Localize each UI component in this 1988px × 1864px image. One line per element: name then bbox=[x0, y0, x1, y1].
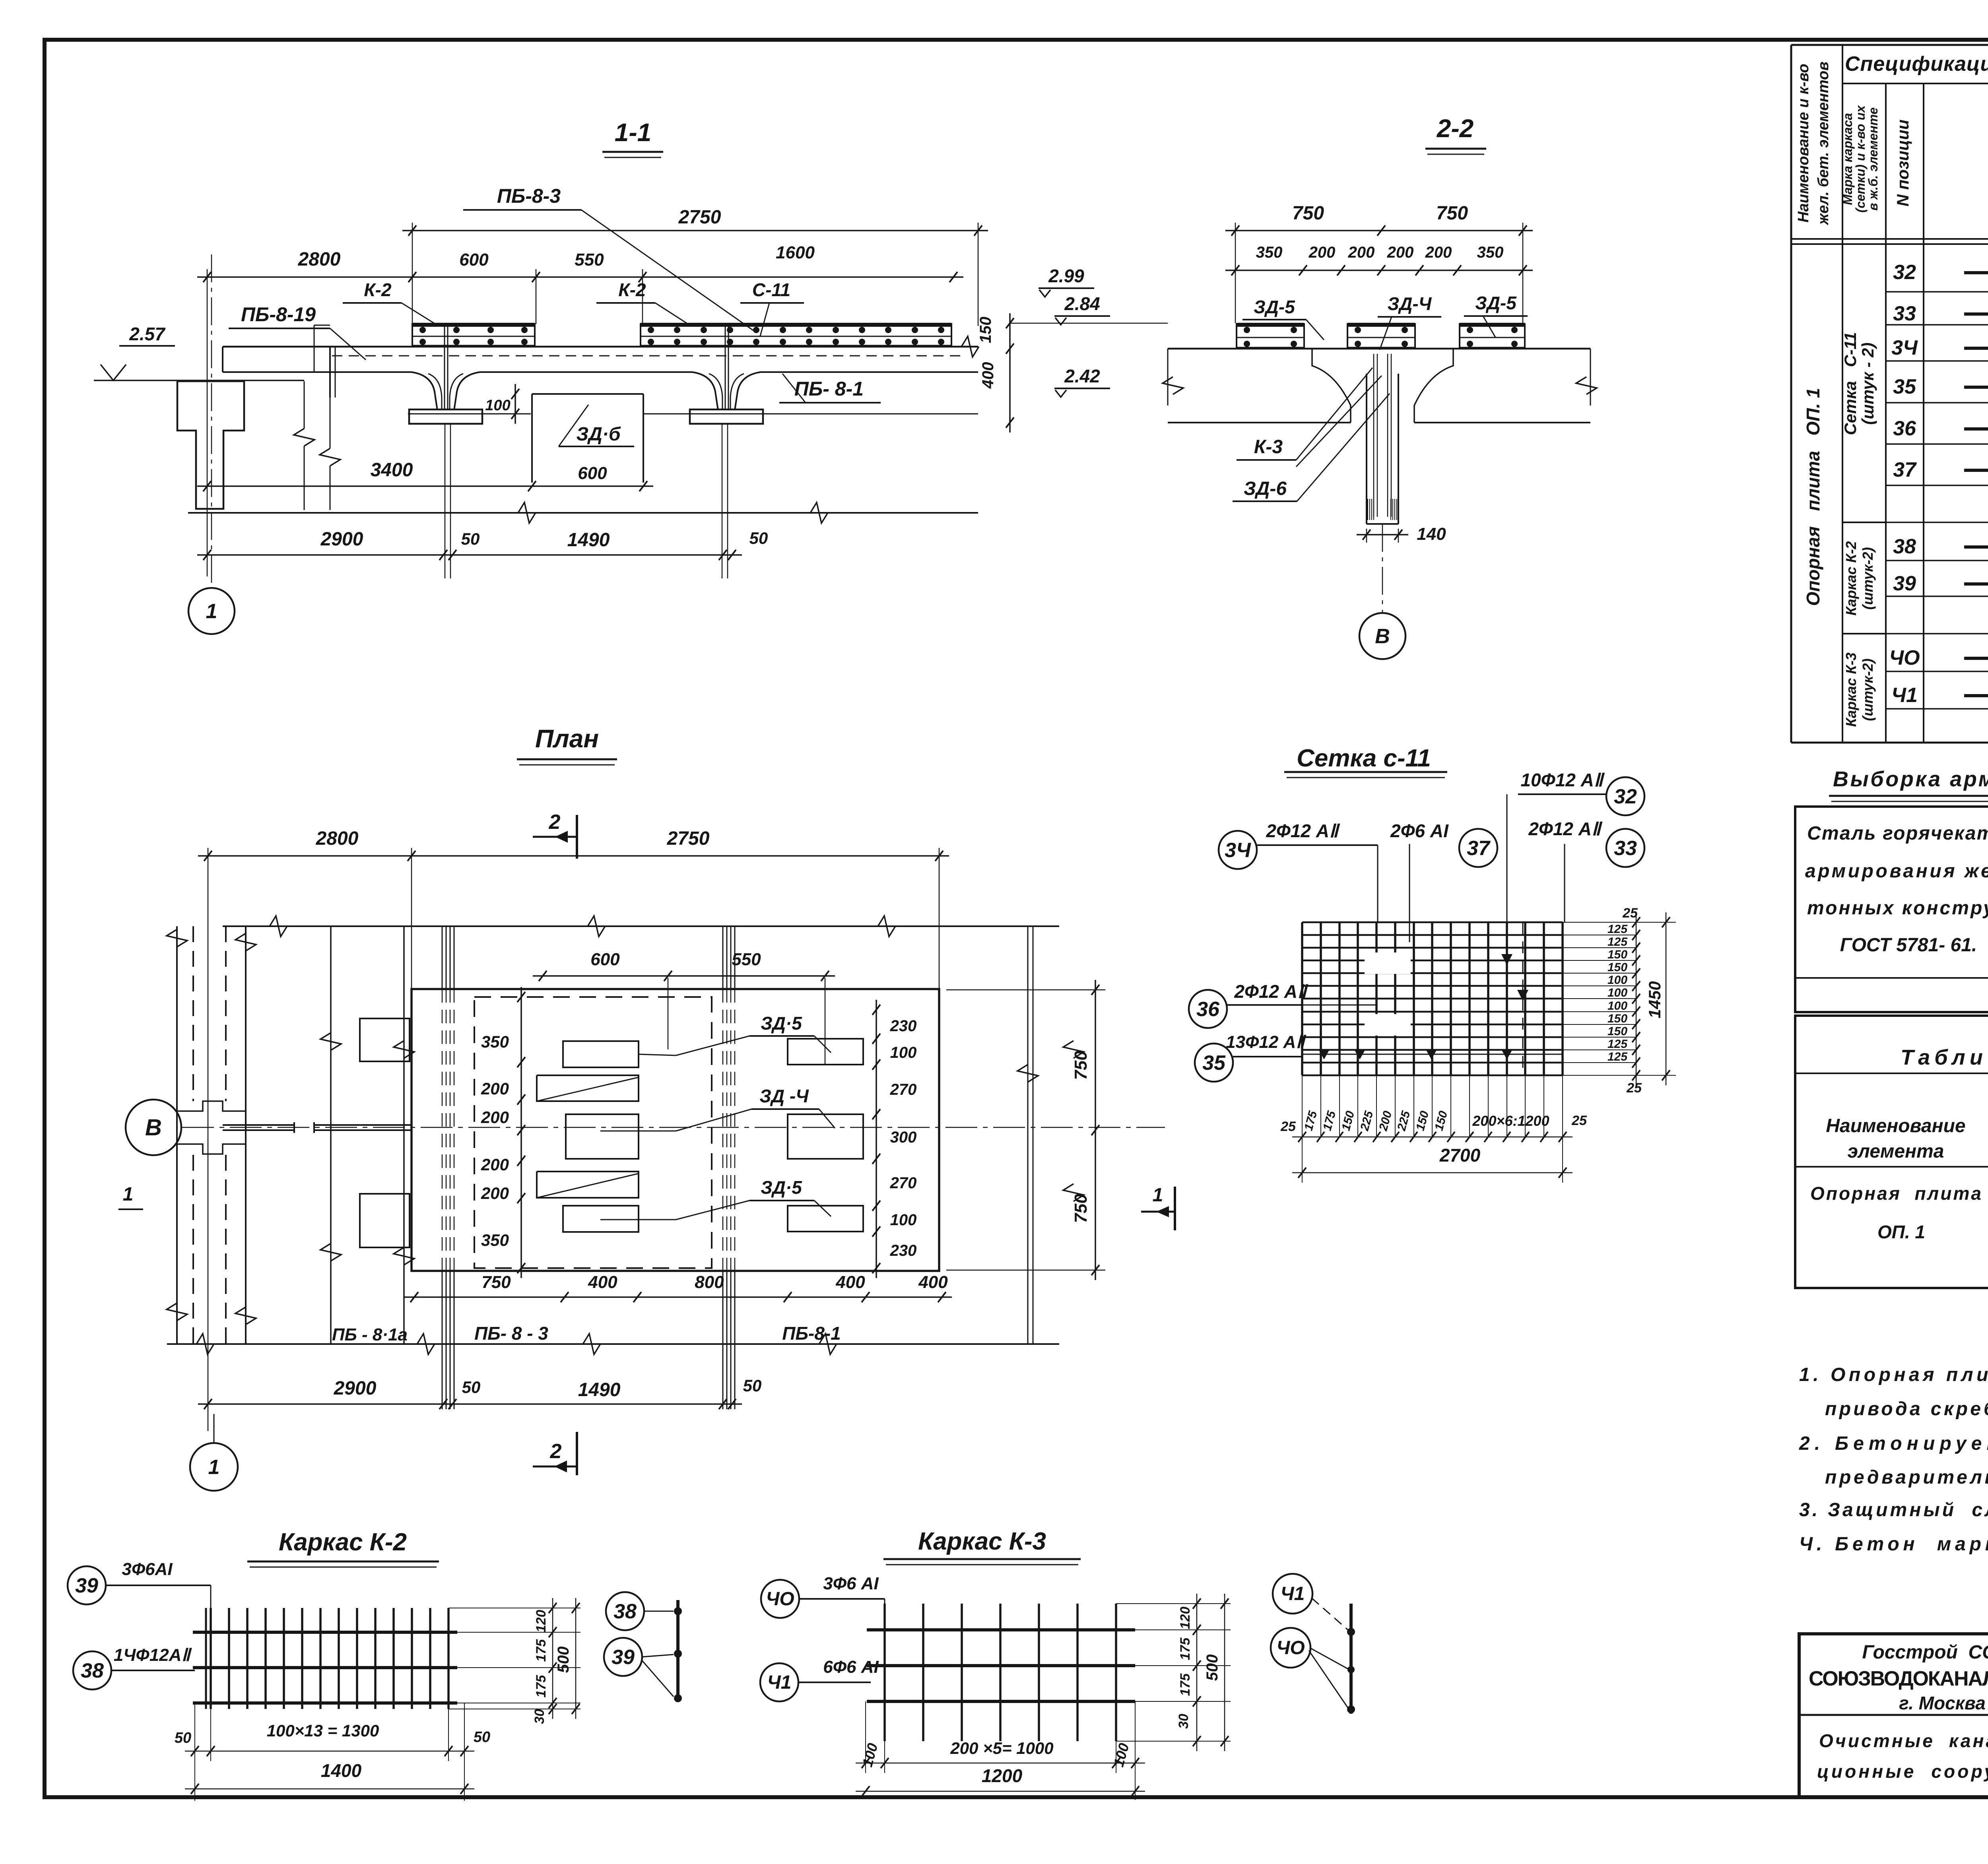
svg-text:400: 400 bbox=[835, 1272, 865, 1292]
svg-text:350: 350 bbox=[481, 1231, 509, 1249]
svg-text:750: 750 bbox=[1071, 1194, 1091, 1223]
svg-text:50: 50 bbox=[743, 1376, 762, 1395]
svg-text:2750: 2750 bbox=[678, 207, 721, 228]
svg-text:К-3: К-3 bbox=[1254, 436, 1283, 458]
svg-text:Сетка с-11: Сетка с-11 bbox=[1297, 745, 1431, 772]
svg-text:500: 500 bbox=[1204, 1655, 1221, 1681]
svg-text:1450: 1450 bbox=[1645, 981, 1664, 1018]
svg-text:270: 270 bbox=[890, 1081, 917, 1098]
svg-text:10Ф12 AⅡ: 10Ф12 AⅡ bbox=[1521, 770, 1605, 790]
svg-text:тонных конструкций: тонных конструкций bbox=[1807, 898, 1988, 919]
svg-text:Каркас К-2: Каркас К-2 bbox=[279, 1528, 407, 1556]
svg-text:3Ф6AI: 3Ф6AI bbox=[122, 1559, 173, 1579]
svg-text:140: 140 bbox=[1417, 524, 1446, 544]
svg-text:(сетки) и к-во их: (сетки) и к-во их bbox=[1853, 105, 1868, 213]
svg-text:3Ч: 3Ч bbox=[1891, 336, 1918, 359]
svg-text:В: В bbox=[145, 1115, 162, 1141]
svg-text:1: 1 bbox=[206, 600, 217, 623]
svg-text:150: 150 bbox=[1607, 1025, 1627, 1038]
svg-text:в ж.б. элементе: в ж.б. элементе bbox=[1866, 107, 1880, 211]
svg-text:125: 125 bbox=[1607, 1038, 1628, 1051]
svg-text:Марка каркаса: Марка каркаса bbox=[1840, 113, 1855, 205]
svg-text:35: 35 bbox=[1893, 375, 1916, 398]
svg-text:ЗД-5: ЗД-5 bbox=[1475, 293, 1517, 313]
svg-text:175: 175 bbox=[534, 1675, 549, 1698]
svg-text:200 ×5= 1000: 200 ×5= 1000 bbox=[950, 1739, 1053, 1757]
svg-text:200×6:1200: 200×6:1200 bbox=[1472, 1113, 1549, 1129]
svg-text:армирования железобе-: армирования железобе- bbox=[1805, 861, 1988, 882]
svg-text:Ч. Бетон марки 200 (обычный): Ч. Бетон марки 200 (обычный) bbox=[1799, 1534, 1988, 1555]
svg-text:ПБ- 8-1: ПБ- 8-1 bbox=[794, 378, 864, 400]
svg-text:привода скребкового механизма: привода скребкового механизма нефтеловуш… bbox=[1825, 1398, 1988, 1420]
svg-text:(штук-2): (штук-2) bbox=[1860, 658, 1876, 721]
svg-text:400: 400 bbox=[918, 1272, 948, 1292]
svg-text:Выборка арматуры на 1 железобе: Выборка арматуры на 1 железобетонный эле… bbox=[1833, 767, 1988, 791]
svg-text:600: 600 bbox=[578, 464, 607, 483]
svg-text:100: 100 bbox=[890, 1044, 917, 1061]
svg-text:200: 200 bbox=[1309, 244, 1336, 261]
svg-text:38: 38 bbox=[1893, 535, 1916, 558]
svg-text:2: 2 bbox=[550, 1440, 562, 1463]
svg-text:30: 30 bbox=[1176, 1714, 1191, 1729]
svg-text:150: 150 bbox=[1607, 948, 1627, 961]
svg-text:1490: 1490 bbox=[567, 530, 610, 551]
svg-text:2Ф12 AⅡ: 2Ф12 AⅡ bbox=[1528, 819, 1603, 839]
svg-text:2700: 2700 bbox=[1439, 1145, 1481, 1166]
svg-text:2750: 2750 bbox=[667, 828, 710, 849]
svg-text:1: 1 bbox=[123, 1184, 134, 1205]
svg-text:750: 750 bbox=[1071, 1051, 1091, 1080]
svg-text:175: 175 bbox=[1178, 1673, 1193, 1696]
svg-text:50: 50 bbox=[175, 1730, 191, 1746]
svg-text:33: 33 bbox=[1893, 302, 1916, 325]
svg-text:Сталь горячекатаная для: Сталь горячекатаная для bbox=[1807, 823, 1988, 844]
svg-text:2.99: 2.99 bbox=[1048, 266, 1084, 286]
svg-text:100×13 = 1300: 100×13 = 1300 bbox=[267, 1721, 379, 1740]
svg-text:750: 750 bbox=[1436, 203, 1468, 224]
svg-text:350: 350 bbox=[1256, 244, 1283, 261]
svg-text:600: 600 bbox=[590, 950, 620, 969]
svg-text:230: 230 bbox=[890, 1017, 917, 1035]
svg-text:100: 100 bbox=[890, 1211, 917, 1229]
svg-text:2800: 2800 bbox=[316, 828, 359, 849]
svg-text:2900: 2900 bbox=[334, 1378, 377, 1399]
svg-text:2Ф12 AⅡ: 2Ф12 AⅡ bbox=[1266, 820, 1340, 841]
svg-text:125: 125 bbox=[1607, 1050, 1628, 1063]
svg-text:(штук-2): (штук-2) bbox=[1860, 547, 1876, 609]
svg-text:(штук - 2): (штук - 2) bbox=[1858, 343, 1877, 425]
svg-text:125: 125 bbox=[1607, 923, 1628, 936]
svg-text:Наименование и к-во: Наименование и к-во bbox=[1795, 64, 1812, 223]
svg-text:1: 1 bbox=[1153, 1185, 1163, 1206]
svg-text:ЗД-Ч: ЗД-Ч bbox=[1388, 293, 1432, 314]
svg-text:350: 350 bbox=[1477, 244, 1504, 261]
svg-text:200: 200 bbox=[1425, 244, 1452, 261]
svg-text:ЗД·5: ЗД·5 bbox=[761, 1177, 802, 1198]
svg-text:В: В bbox=[1375, 625, 1390, 648]
svg-text:3. Защитный слой бетона для: 3. Защитный слой бетона для арматуры при… bbox=[1799, 1499, 1988, 1521]
svg-text:1-1: 1-1 bbox=[615, 118, 652, 147]
svg-text:230: 230 bbox=[890, 1242, 917, 1259]
svg-text:175: 175 bbox=[1178, 1637, 1193, 1660]
svg-text:г. Москва: г. Москва bbox=[1899, 1693, 1986, 1713]
svg-text:ЧO: ЧO bbox=[766, 1589, 794, 1610]
svg-text:400: 400 bbox=[588, 1272, 617, 1292]
svg-text:ЗД -Ч: ЗД -Ч bbox=[759, 1086, 809, 1106]
svg-text:3Ч: 3Ч bbox=[1225, 839, 1251, 862]
svg-text:200: 200 bbox=[481, 1184, 509, 1203]
svg-text:200: 200 bbox=[1348, 244, 1375, 261]
svg-text:350: 350 bbox=[481, 1032, 509, 1051]
svg-text:800: 800 bbox=[695, 1272, 724, 1292]
svg-text:120: 120 bbox=[1178, 1607, 1193, 1629]
svg-text:1ЧФ12AⅡ: 1ЧФ12AⅡ bbox=[114, 1645, 192, 1665]
svg-text:Каркас К-3: Каркас К-3 bbox=[1843, 652, 1859, 727]
svg-text:25: 25 bbox=[1571, 1113, 1587, 1128]
svg-text:500: 500 bbox=[555, 1647, 572, 1673]
svg-text:32: 32 bbox=[1614, 785, 1637, 808]
svg-text:N позиции: N позиции bbox=[1893, 120, 1912, 207]
svg-text:3Ф6 AI: 3Ф6 AI bbox=[823, 1574, 879, 1593]
svg-text:2800: 2800 bbox=[298, 249, 341, 270]
svg-text:Госстрой СССР: Госстрой СССР bbox=[1862, 1642, 1988, 1663]
svg-text:1400: 1400 bbox=[321, 1760, 362, 1781]
svg-text:ПБ-8-1: ПБ-8-1 bbox=[782, 1323, 841, 1344]
svg-text:ЗД·б: ЗД·б bbox=[576, 424, 621, 445]
svg-text:План: План bbox=[535, 724, 599, 753]
svg-text:2.84: 2.84 bbox=[1064, 293, 1100, 314]
svg-text:К-2: К-2 bbox=[618, 279, 646, 300]
svg-text:270: 270 bbox=[890, 1174, 917, 1192]
svg-text:жел. бет. элементов: жел. бет. элементов bbox=[1815, 62, 1832, 225]
svg-text:Ч1: Ч1 bbox=[1891, 684, 1918, 707]
svg-text:С-11: С-11 bbox=[752, 279, 790, 300]
svg-text:750: 750 bbox=[1292, 203, 1324, 224]
svg-text:150: 150 bbox=[977, 317, 994, 343]
svg-text:600: 600 bbox=[459, 250, 489, 270]
svg-text:36: 36 bbox=[1196, 998, 1220, 1021]
svg-text:ЗД-6: ЗД-6 bbox=[1244, 478, 1287, 499]
svg-text:50: 50 bbox=[474, 1729, 490, 1746]
svg-text:13Ф12 AⅡ: 13Ф12 AⅡ bbox=[1226, 1032, 1307, 1052]
svg-text:Каркас К-2: Каркас К-2 bbox=[1843, 541, 1859, 615]
svg-text:25: 25 bbox=[1280, 1119, 1296, 1134]
svg-text:33: 33 bbox=[1614, 837, 1637, 860]
svg-text:Каркас К-3: Каркас К-3 bbox=[918, 1528, 1046, 1555]
svg-text:200: 200 bbox=[481, 1079, 509, 1098]
svg-text:Сетка С-11: Сетка С-11 bbox=[1841, 332, 1860, 435]
svg-text:ЗД-5: ЗД-5 bbox=[1254, 297, 1295, 317]
svg-text:100: 100 bbox=[485, 397, 510, 414]
svg-text:37: 37 bbox=[1893, 458, 1917, 481]
svg-text:ОП. 1: ОП. 1 bbox=[1877, 1222, 1925, 1242]
svg-text:ПБ- 8 - 3: ПБ- 8 - 3 bbox=[474, 1323, 548, 1344]
svg-text:150: 150 bbox=[1607, 1012, 1627, 1025]
svg-text:Ч1: Ч1 bbox=[1281, 1583, 1305, 1604]
svg-text:25: 25 bbox=[1626, 1080, 1642, 1096]
svg-text:Опорная плита: Опорная плита bbox=[1810, 1183, 1981, 1204]
svg-text:СОЮЗВОДОКАНАЛПРОЕКТ: СОЮЗВОДОКАНАЛПРОЕКТ bbox=[1809, 1667, 1988, 1690]
svg-text:Наименование: Наименование bbox=[1826, 1115, 1965, 1137]
svg-text:Опорная плита ОП. 1: Опорная плита ОП. 1 bbox=[1803, 388, 1823, 606]
svg-text:К-2: К-2 bbox=[364, 279, 392, 300]
svg-text:1200: 1200 bbox=[982, 1765, 1023, 1786]
svg-text:50: 50 bbox=[461, 530, 480, 548]
svg-text:2.42: 2.42 bbox=[1064, 366, 1100, 386]
svg-text:38: 38 bbox=[81, 1659, 104, 1682]
svg-text:ГОСТ 5781- 61.: ГОСТ 5781- 61. bbox=[1840, 935, 1977, 956]
svg-text:150: 150 bbox=[1607, 961, 1627, 974]
svg-text:1490: 1490 bbox=[578, 1379, 621, 1400]
svg-text:100: 100 bbox=[1607, 974, 1627, 987]
svg-text:400: 400 bbox=[979, 362, 997, 389]
svg-text:ПБ - 8·1а: ПБ - 8·1а bbox=[332, 1325, 408, 1344]
svg-text:50: 50 bbox=[462, 1378, 481, 1397]
svg-text:39: 39 bbox=[75, 1574, 98, 1597]
svg-text:200: 200 bbox=[1387, 244, 1414, 261]
svg-text:2Ф12 AⅡ: 2Ф12 AⅡ bbox=[1234, 981, 1309, 1002]
svg-text:36: 36 bbox=[1893, 417, 1916, 440]
svg-text:2: 2 bbox=[549, 811, 561, 834]
svg-text:Спецификация арматуры на 1 жел: Спецификация арматуры на 1 железобетонны… bbox=[1845, 52, 1988, 76]
svg-text:750: 750 bbox=[481, 1272, 511, 1292]
svg-text:ЧO: ЧO bbox=[1276, 1637, 1305, 1658]
svg-text:32: 32 bbox=[1893, 261, 1916, 284]
svg-text:550: 550 bbox=[732, 950, 761, 969]
svg-text:200: 200 bbox=[481, 1108, 509, 1127]
svg-text:ЗД·5: ЗД·5 bbox=[761, 1013, 802, 1034]
svg-text:2-2: 2-2 bbox=[1437, 114, 1474, 143]
svg-text:39: 39 bbox=[1893, 572, 1916, 595]
svg-text:25: 25 bbox=[1622, 906, 1638, 921]
svg-text:50: 50 bbox=[749, 529, 768, 547]
svg-text:1600: 1600 bbox=[776, 243, 815, 262]
svg-text:39: 39 bbox=[612, 1646, 635, 1669]
svg-text:ПБ-8-19: ПБ-8-19 bbox=[241, 303, 316, 326]
svg-text:2.57: 2.57 bbox=[129, 324, 166, 344]
svg-text:Ч1: Ч1 bbox=[767, 1672, 792, 1693]
svg-text:125: 125 bbox=[1607, 935, 1628, 948]
svg-text:200: 200 bbox=[481, 1155, 509, 1174]
svg-text:35: 35 bbox=[1202, 1051, 1226, 1075]
svg-text:3400: 3400 bbox=[371, 460, 413, 481]
svg-text:37: 37 bbox=[1467, 837, 1491, 860]
svg-text:ЧO: ЧO bbox=[1889, 646, 1920, 669]
svg-text:2Ф6 AI: 2Ф6 AI bbox=[1390, 820, 1449, 841]
svg-text:2. Бетонируется опорная плит: 2. Бетонируется опорная плита ОП-1 на ме… bbox=[1799, 1433, 1988, 1454]
svg-text:2900: 2900 bbox=[320, 529, 363, 550]
svg-text:элемента: элемента bbox=[1848, 1141, 1944, 1162]
svg-text:175: 175 bbox=[534, 1639, 549, 1662]
svg-text:100: 100 bbox=[1607, 986, 1627, 999]
svg-text:30: 30 bbox=[532, 1709, 547, 1724]
svg-text:120: 120 bbox=[534, 1610, 549, 1633]
svg-text:300: 300 bbox=[890, 1129, 917, 1146]
svg-text:ПБ-8-3: ПБ-8-3 bbox=[497, 185, 561, 207]
svg-text:550: 550 bbox=[575, 250, 604, 270]
svg-text:1: 1 bbox=[208, 1456, 220, 1479]
svg-text:38: 38 bbox=[613, 1600, 637, 1623]
svg-text:100: 100 bbox=[1607, 999, 1627, 1012]
